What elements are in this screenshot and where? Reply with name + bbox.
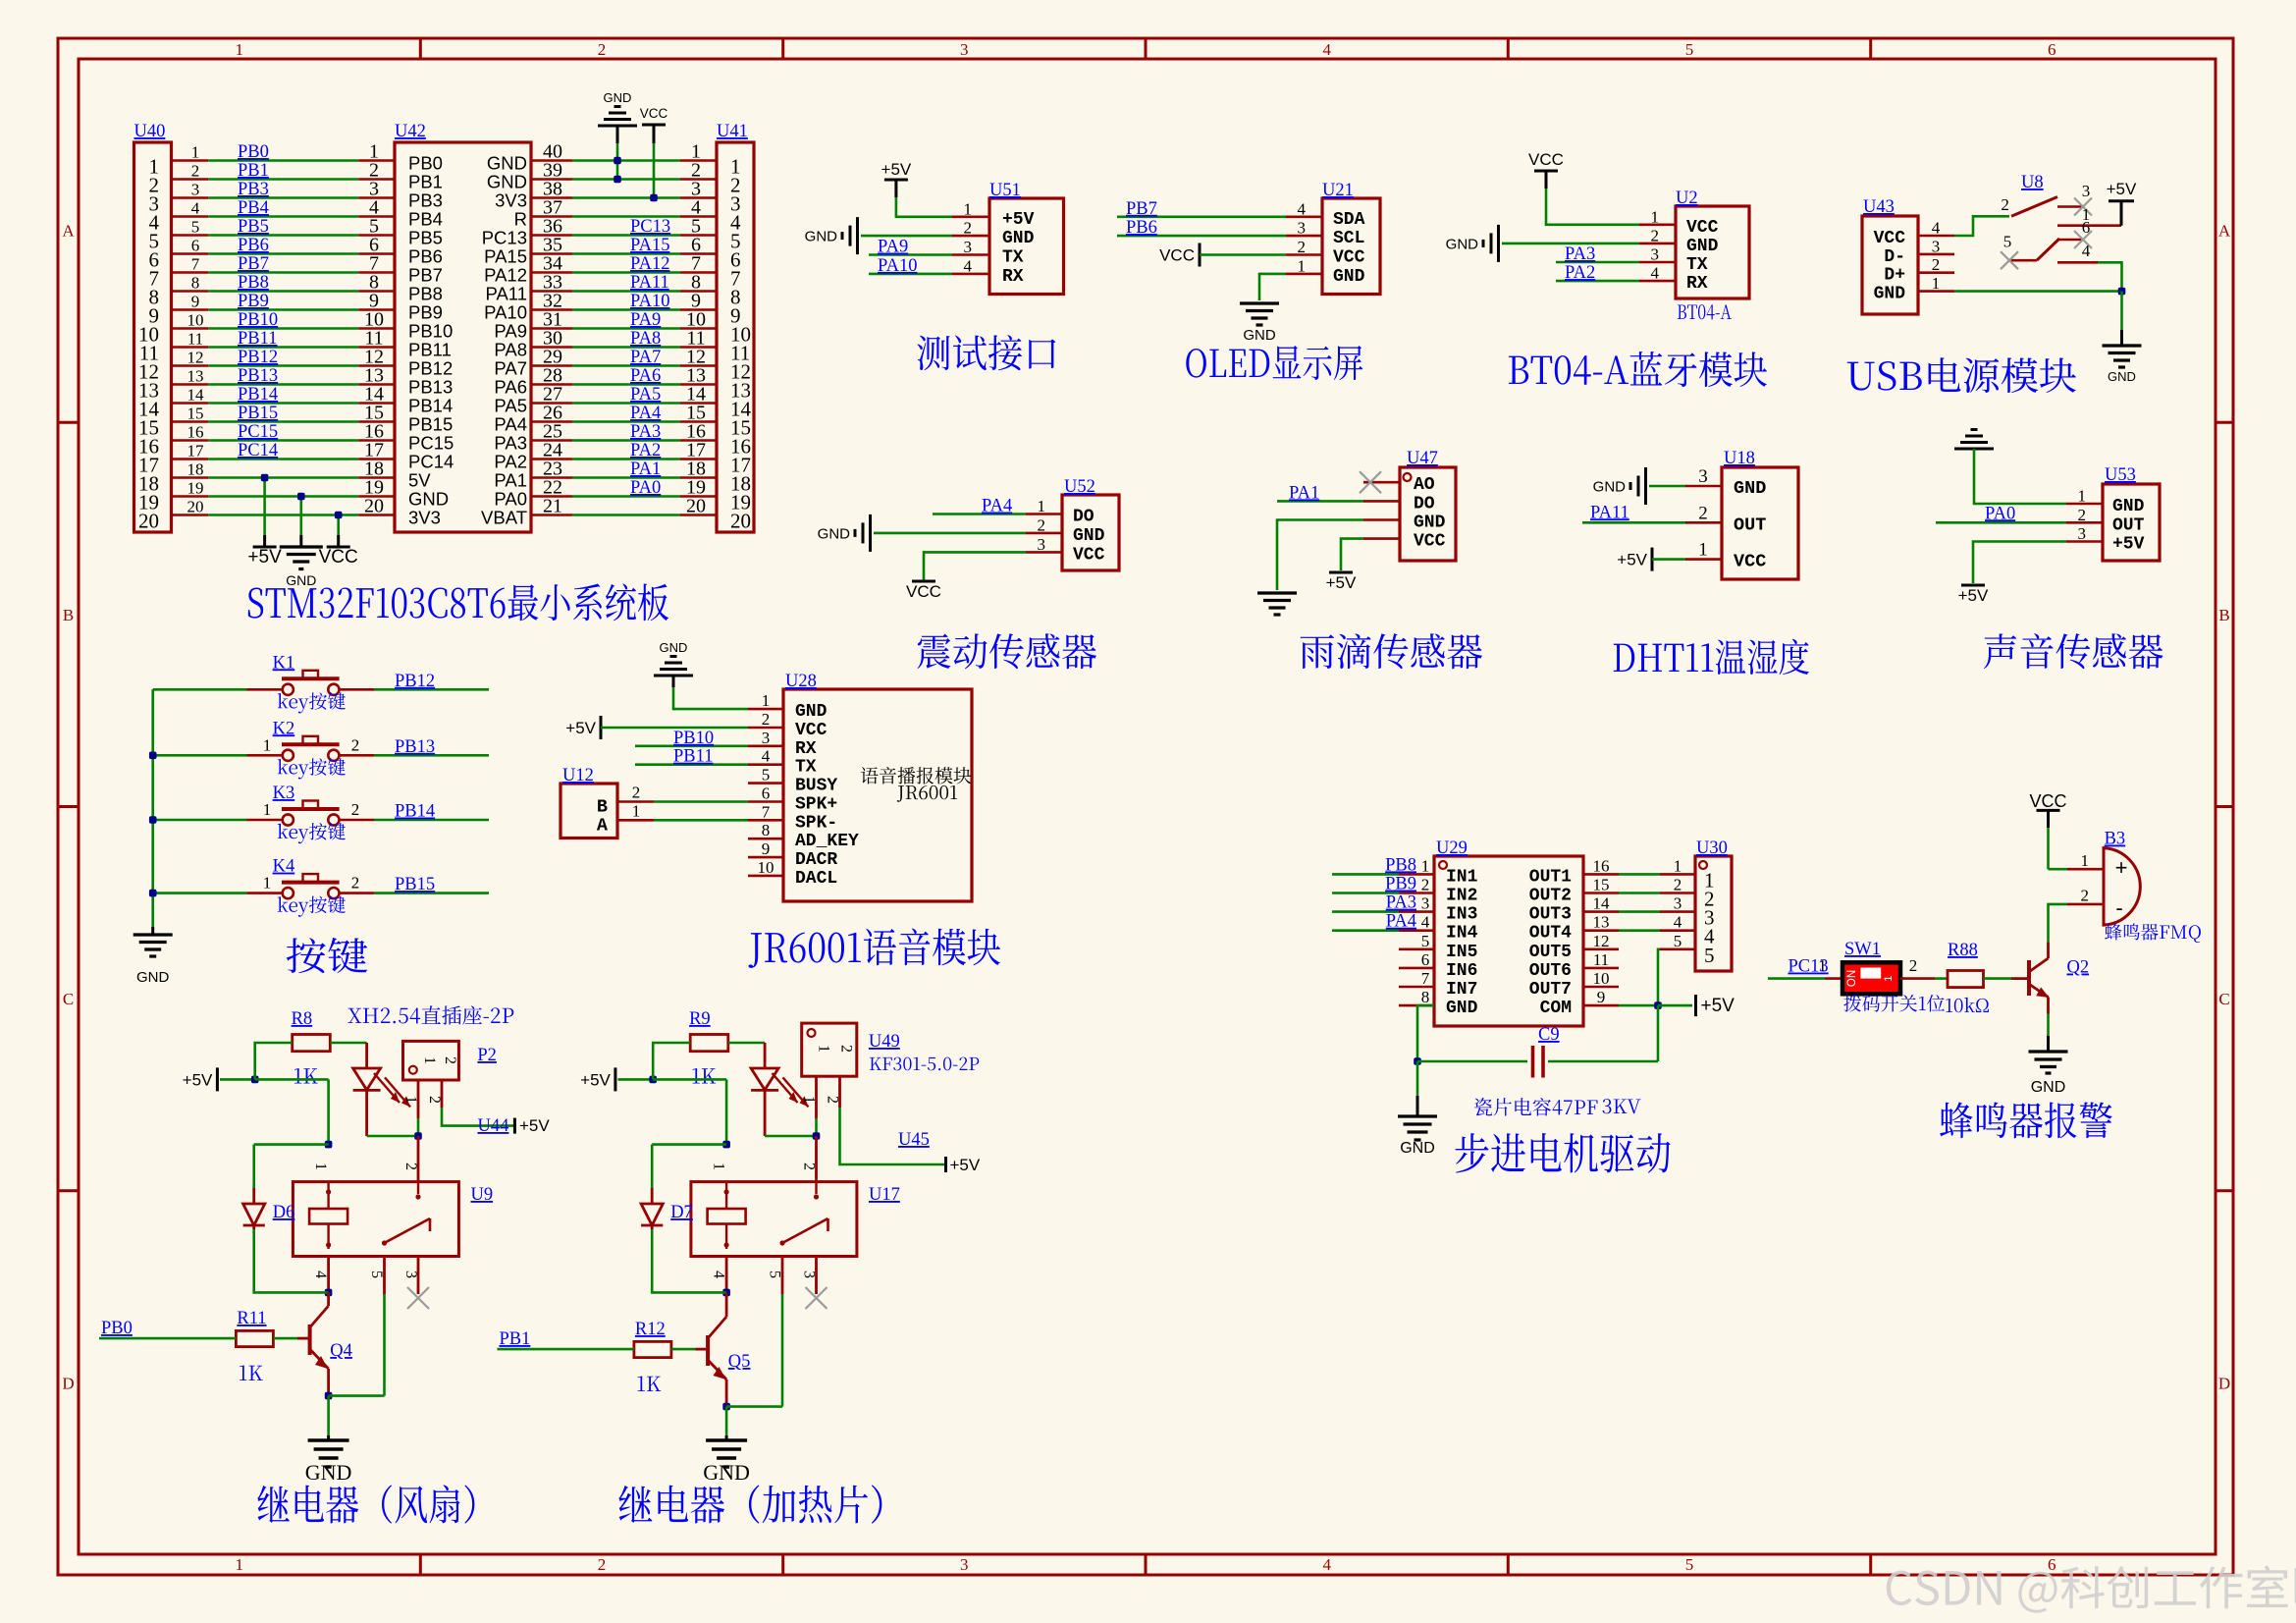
wire U40.3-U42.3 net PB3 (208, 196, 358, 199)
U29 pin 4 (IN4) (1399, 929, 1434, 932)
svg-text:U41: U41 (717, 122, 748, 141)
svg-text:OUT4: OUT4 (1529, 924, 1572, 944)
svg-text:20: 20 (187, 498, 204, 516)
svg-text:PA10: PA10 (484, 302, 527, 323)
svg-text:PB11: PB11 (673, 747, 713, 767)
wire U42.39-U41.2 (572, 178, 680, 181)
svg-text:OUT7: OUT7 (1529, 980, 1572, 1000)
wire net PB9 to U29.2 (1332, 892, 1399, 894)
svg-text:4: 4 (1932, 219, 1941, 238)
svg-text:U17: U17 (869, 1185, 900, 1205)
svg-text:U2: U2 (1676, 189, 1698, 208)
+5V power bar below U47 (1329, 571, 1353, 574)
svg-text:VCC: VCC (795, 721, 828, 740)
svg-text:5: 5 (1704, 944, 1715, 967)
svg-text:PB0: PB0 (408, 153, 443, 174)
svg-text:PA1: PA1 (494, 470, 527, 491)
no-connect X on U47.1 (1360, 471, 1381, 493)
wire U49 pin2 to +5V (U45) (840, 1108, 946, 1164)
U41 pin 11 (680, 346, 717, 349)
svg-text:6: 6 (2048, 1555, 2056, 1574)
U52 pin 3 (VCC) (1026, 551, 1062, 554)
svg-text:10: 10 (758, 858, 774, 877)
svg-text:R88: R88 (1948, 941, 1978, 960)
relay contact internals (815, 1182, 817, 1194)
U40 pin 19 (172, 495, 209, 498)
U40 pin 5 (172, 234, 209, 237)
U40 pin 14 (172, 402, 209, 405)
svg-text:PA9: PA9 (494, 321, 527, 342)
svg-text:2: 2 (191, 162, 200, 181)
relay pin 1 internal coil (327, 1182, 329, 1209)
svg-text:PC13: PC13 (482, 228, 527, 248)
svg-text:A: A (597, 815, 609, 836)
svg-text:PA12: PA12 (630, 254, 669, 274)
svg-text:20: 20 (686, 496, 706, 517)
svg-text:2: 2 (1932, 255, 1941, 274)
svg-text:U18: U18 (1724, 449, 1755, 468)
svg-text:3: 3 (1298, 219, 1307, 238)
svg-text:GND: GND (1243, 327, 1276, 344)
caption buzzer alarm (1940, 1102, 2112, 1138)
wire U42.34-U41.7 net PA12 (572, 271, 680, 274)
svg-text:+5V: +5V (881, 160, 912, 179)
svg-text:5: 5 (191, 218, 200, 237)
svg-text:D7: D7 (670, 1203, 693, 1222)
ground GND below key bus (151, 927, 154, 935)
svg-text:2: 2 (426, 1096, 443, 1104)
+5V power at U28.2 (600, 716, 603, 739)
svg-text:U8: U8 (2021, 173, 2044, 192)
wire P2 pin2 to +5V (U44) (442, 1108, 514, 1126)
U43 pin 1 (GND) (1918, 290, 1954, 293)
U41 pin 15 (680, 420, 717, 423)
svg-text:4: 4 (312, 1271, 329, 1278)
U42 pin 7 (PB7) (358, 271, 395, 274)
wire U40.15-U42.15 net PB15 (208, 420, 358, 423)
U47 pin 1 (AO) (1363, 481, 1400, 484)
wire U42.26-U41.15 net PA4 (572, 420, 680, 423)
svg-text:1: 1 (1932, 274, 1941, 293)
+5V power bar (1694, 995, 1697, 1016)
svg-text:GND: GND (136, 969, 170, 986)
wire GND to U51.2 (861, 235, 952, 238)
U41 pin 4 (680, 215, 717, 218)
svg-text:U42: U42 (395, 122, 426, 141)
U29 pin 1 (IN1) (1399, 873, 1434, 876)
svg-text:2: 2 (632, 784, 641, 802)
text voice broadcast module JR6001 (861, 767, 972, 784)
U40 pin 10 (172, 327, 209, 330)
svg-text:GND: GND (305, 1460, 352, 1485)
switch K2 (153, 754, 247, 757)
U47 pin 3 (GND) (1363, 518, 1400, 521)
wire net PB10 to U28.3 (635, 744, 748, 747)
wire B3.2 to Q2 collector (2049, 904, 2068, 943)
svg-text:4: 4 (964, 256, 973, 275)
svg-text:13: 13 (187, 367, 204, 386)
wire U42.32-U41.9 net PA10 (572, 308, 680, 311)
svg-text:2: 2 (1651, 226, 1660, 244)
svg-text:PA11: PA11 (630, 273, 669, 293)
U49 pin 1 (815, 1076, 818, 1118)
svg-text:VCC: VCC (319, 547, 358, 568)
U12 pin 2 (617, 800, 654, 803)
svg-text:6: 6 (2048, 40, 2056, 59)
wire VCC to U2.1 (1546, 189, 1639, 225)
wire SW1 to R88 (1935, 977, 1948, 980)
svg-text:OUT: OUT (1734, 514, 1766, 535)
svg-text:PB13: PB13 (408, 377, 453, 398)
U51 pin 2 (GND) (952, 235, 989, 238)
caption stepper motor driver (1456, 1133, 1671, 1173)
capacitor C9 (1417, 1060, 1527, 1063)
connector U12 speaker (561, 784, 617, 839)
wire U43.1 GND (1954, 290, 2122, 293)
svg-text:RX: RX (795, 739, 817, 759)
svg-text:1: 1 (1038, 497, 1046, 515)
svg-text:AO: AO (1414, 475, 1435, 495)
U30 pin 2 (1660, 892, 1695, 894)
svg-text:1: 1 (1298, 256, 1307, 275)
svg-text:2: 2 (598, 1555, 607, 1574)
svg-text:DO: DO (1414, 494, 1435, 514)
svg-text:PC14: PC14 (238, 441, 278, 460)
svg-text:PA15: PA15 (484, 246, 527, 267)
wire U29.COM to +5V (1619, 1004, 1658, 1007)
IC U42 STM32F103C8T6 (395, 142, 531, 532)
svg-text:PA10: PA10 (630, 292, 669, 311)
svg-text:2: 2 (801, 1163, 818, 1170)
U30 pin 1 (1660, 873, 1695, 876)
wire net PA3 to U2.3 (1556, 261, 1639, 264)
svg-text:PA9: PA9 (878, 238, 908, 257)
svg-text:B3: B3 (2105, 830, 2126, 849)
svg-text:2: 2 (402, 1163, 419, 1170)
caption STM32F103C8T6 minimal system board (248, 583, 668, 621)
U41 pin 14 (680, 402, 717, 405)
svg-text:A: A (2218, 222, 2231, 241)
U42 pin 36 (PC13) (531, 234, 572, 237)
wire net PB0 to R11 (99, 1337, 236, 1340)
key bus wire (151, 689, 154, 927)
svg-text:U9: U9 (471, 1185, 494, 1205)
svg-text:9: 9 (762, 839, 771, 858)
wire D6 top (254, 1143, 329, 1146)
+5V power bar (253, 546, 277, 549)
svg-text:IN3: IN3 (1446, 905, 1477, 925)
svg-text:1: 1 (816, 1045, 832, 1053)
U29 pin 3 (IN3) (1399, 910, 1434, 913)
switch K3 (153, 819, 247, 822)
wire net PA9 to U51.3 (869, 253, 952, 256)
U40 pin 17 (172, 458, 209, 460)
svg-text:3: 3 (1674, 894, 1682, 913)
svg-text:PB1: PB1 (238, 161, 269, 181)
wire GND to U18.3 (1649, 485, 1685, 488)
svg-text:U21: U21 (1322, 181, 1354, 200)
wire net PA1 to U47.2 (1277, 500, 1363, 503)
caption raindrop sensor (1301, 633, 1482, 669)
svg-text:K4: K4 (273, 857, 295, 877)
U41 pin 17 (680, 458, 717, 460)
connector U30 (1695, 856, 1732, 971)
relay pin 3 no-connect (815, 1257, 818, 1295)
text DIP switch 1bit (1843, 995, 1945, 1012)
wire D6 bottom to relay pin4 (254, 1229, 329, 1292)
relay pin 3 no-connect (417, 1257, 420, 1295)
wire D7 top (652, 1143, 726, 1146)
U41 pin 7 (680, 271, 717, 274)
U51 pin 4 (RX) (952, 273, 989, 276)
svg-text:14: 14 (1593, 894, 1611, 913)
svg-text:TX: TX (795, 758, 817, 778)
svg-text:PA0: PA0 (630, 478, 661, 498)
U29 pin 13 (OUT4) (1583, 929, 1619, 932)
U42 pin 30 (PA8) (531, 346, 572, 349)
U21 pin 2 (VCC) (1286, 253, 1322, 256)
wire Q4 emitter to relay pin5 (329, 1394, 385, 1397)
LED opto fan (365, 1043, 368, 1068)
wire U42.24-U41.17 net PA2 (572, 458, 680, 460)
U49 pin 2 (838, 1076, 841, 1108)
svg-text:R9: R9 (689, 1009, 711, 1029)
U42 pin 19 (GND) (358, 495, 395, 498)
U42 pin 6 (PB6) (358, 252, 395, 255)
svg-text:2: 2 (2081, 887, 2090, 905)
wire R11 to Q4 base (273, 1337, 297, 1340)
svg-text:4: 4 (1674, 913, 1682, 932)
U29 pin 12 (OUT5) (1583, 947, 1619, 950)
svg-text:2: 2 (964, 219, 973, 238)
svg-text:1: 1 (263, 735, 272, 754)
U42 pin 31 (PA9) (531, 327, 572, 330)
svg-text:1: 1 (191, 143, 200, 162)
wire U47.4 to +5V (1341, 539, 1363, 570)
svg-text:4: 4 (1298, 199, 1307, 218)
VCC power bar (327, 546, 350, 549)
wire U40.10-U42.10 net PB10 (208, 327, 358, 330)
wire U40.14-U42.14 net PB14 (208, 402, 358, 405)
svg-text:GND: GND (1002, 229, 1035, 248)
wire VCC to U21.2 (1200, 253, 1286, 256)
svg-text:4: 4 (2082, 242, 2091, 260)
svg-text:D: D (2218, 1374, 2230, 1392)
svg-text:PB4: PB4 (408, 209, 443, 230)
svg-text:DACR: DACR (795, 850, 837, 870)
svg-text:PB14: PB14 (408, 396, 453, 416)
U30 pin 5 (1660, 947, 1695, 950)
U52 pin 2 (GND) (1026, 532, 1062, 535)
wire R8 to LED and relay pin1 (330, 1042, 366, 1045)
wire U42.33-U41.8 net PA11 (572, 290, 680, 293)
connector U41 (717, 142, 754, 532)
svg-text:5: 5 (1674, 932, 1682, 950)
wire net PB11 to U28.4 (635, 763, 748, 766)
U42 pin 21 (VBAT) (531, 514, 572, 516)
wire net PA3 to U29.3 (1332, 910, 1399, 913)
svg-text:U30: U30 (1696, 839, 1728, 858)
svg-text:VCC: VCC (1686, 218, 1719, 238)
svg-text:-: - (2115, 895, 2122, 920)
svg-text:VCC: VCC (1528, 150, 1564, 169)
svg-text:IN4: IN4 (1446, 924, 1478, 944)
U42 pin 34 (PA12) (531, 271, 572, 274)
wire U42.23-U41.18 net PA1 (572, 476, 680, 479)
U29 pin 11 (OUT6) (1583, 967, 1619, 970)
svg-text:Q4: Q4 (330, 1341, 352, 1361)
svg-text:GND: GND (1446, 236, 1479, 252)
svg-text:PA4: PA4 (494, 414, 527, 435)
U40 pin 20 (172, 514, 209, 516)
svg-text:U12: U12 (562, 766, 594, 785)
wire GND to U2.2 (1502, 243, 1639, 245)
svg-text:PB4: PB4 (238, 198, 269, 218)
svg-text:7: 7 (762, 802, 771, 821)
ground GND below U21 (1240, 301, 1279, 304)
connector U40 (134, 142, 172, 532)
wire U29.OUT3 to U30.3 (1619, 910, 1660, 913)
+5V power bar below U53 (1961, 584, 1985, 587)
svg-text:17: 17 (187, 442, 205, 460)
svg-text:R11: R11 (237, 1309, 266, 1328)
svg-text:3: 3 (402, 1271, 419, 1278)
ground GND below U29 (1416, 1096, 1419, 1116)
wire U42.36-U41.5 net PC13 (572, 234, 680, 237)
U43 pin 4 (VCC) (1918, 235, 1954, 238)
U47 pin 4 (VCC) (1363, 537, 1400, 540)
svg-text:PA0: PA0 (1985, 504, 2015, 523)
wire LED to relay pin2 junction (367, 1135, 418, 1138)
wire net PB1 to R12 (498, 1348, 634, 1351)
wire +5V to U18.1 (1652, 558, 1685, 561)
svg-text:A: A (62, 222, 75, 241)
svg-text:3: 3 (1932, 237, 1941, 255)
U41 pin 19 (680, 495, 717, 498)
U28 pin 6 (SPK+) (748, 800, 783, 803)
svg-text:PB6: PB6 (1126, 218, 1157, 238)
svg-text:1: 1 (2081, 851, 2090, 870)
svg-text:PB15: PB15 (395, 875, 435, 894)
U42 pin 14 (PB14) (358, 402, 395, 405)
svg-text:PA5: PA5 (494, 396, 527, 416)
svg-text:K1: K1 (273, 653, 295, 673)
U42 pin 3 (PB3) (358, 196, 395, 199)
svg-text:PC15: PC15 (408, 433, 454, 454)
svg-text:GND: GND (487, 172, 527, 192)
svg-text:5: 5 (762, 766, 771, 784)
U42 pin 37 (R) (531, 215, 572, 218)
svg-text:4: 4 (762, 747, 771, 766)
svg-text:VBAT: VBAT (481, 508, 527, 528)
svg-text:PB9: PB9 (238, 292, 269, 311)
relay pin 4 (327, 1257, 330, 1293)
svg-text:PB14: PB14 (395, 802, 435, 822)
U42 pin 2 (PB1) (358, 178, 395, 181)
svg-text:PB1: PB1 (408, 172, 443, 192)
svg-text:2: 2 (838, 1045, 855, 1053)
+5V power bar (216, 1067, 219, 1091)
svg-text:PA4: PA4 (630, 404, 661, 423)
svg-text:VCC: VCC (1333, 248, 1365, 268)
svg-text:AD_KEY: AD_KEY (795, 832, 859, 851)
U53 pin 2 (OUT) (2066, 521, 2103, 524)
svg-text:SPK-: SPK- (795, 813, 837, 833)
U12 pin 1 (617, 819, 654, 822)
svg-text:PA6: PA6 (630, 366, 661, 386)
svg-text:PA1: PA1 (630, 460, 661, 479)
caption JR6001 voice module (748, 928, 1000, 967)
wire U40.2-U42.2 net PB1 (208, 178, 358, 181)
U40 pin 13 (172, 383, 209, 386)
svg-text:18: 18 (187, 460, 204, 479)
wire K1 to net PB12 (374, 688, 489, 691)
svg-text:GND: GND (1686, 237, 1719, 256)
svg-text:4: 4 (1322, 1555, 1331, 1574)
U42 pin 8 (PB8) (358, 290, 395, 293)
svg-text:2: 2 (351, 735, 360, 754)
U41 pin 12 (680, 364, 717, 367)
U28 pin 3 (RX) (748, 744, 783, 747)
caption test interface (917, 335, 1055, 370)
svg-text:PB5: PB5 (238, 217, 269, 237)
U51 pin 1 (+5V) (952, 216, 989, 219)
U42 pin 12 (PB12) (358, 364, 395, 367)
U42 pin 15 (PB15) (358, 420, 395, 423)
svg-text:20: 20 (730, 510, 751, 533)
svg-text:OUT3: OUT3 (1529, 905, 1572, 925)
ground above U53 (1954, 448, 1994, 451)
svg-text:5: 5 (368, 1271, 385, 1278)
svg-text:PA2: PA2 (494, 452, 527, 472)
svg-text:U51: U51 (989, 181, 1021, 200)
svg-text:U52: U52 (1064, 477, 1095, 497)
svg-text:PA4: PA4 (982, 497, 1012, 516)
svg-text:1: 1 (711, 1163, 727, 1170)
U2 pin 2 (GND) (1639, 243, 1676, 245)
svg-text:PB7: PB7 (408, 265, 443, 286)
svg-text:COM: COM (1540, 999, 1572, 1018)
svg-text:U47: U47 (1407, 449, 1438, 468)
IC U29 ULN2003 (1434, 856, 1583, 1026)
wire U40.11-U42.11 net PB11 (208, 346, 358, 349)
U41 pin 5 (680, 234, 717, 237)
ground GND below Q4 (327, 1435, 330, 1440)
wire U42.40-U41.1 (572, 159, 680, 162)
svg-text:+5V: +5V (1002, 210, 1035, 230)
U29 pin 6 (IN6) (1399, 967, 1434, 970)
svg-text:GND: GND (487, 153, 527, 174)
wire GND rail to pins 40,39 (616, 143, 619, 180)
U40 pin 6 (172, 252, 209, 255)
svg-text:PA2: PA2 (630, 441, 661, 460)
svg-text:SW1: SW1 (1844, 940, 1881, 959)
U40 pin 18 (172, 476, 209, 479)
wire +5V to R8 (220, 1078, 255, 1081)
svg-text:+5V: +5V (1958, 586, 1989, 605)
wire +5V to U51.1 (896, 197, 952, 217)
svg-text:DO: DO (1073, 508, 1095, 527)
U28 pin 8 (AD_KEY) (748, 838, 783, 840)
wire GND to U52.2 (874, 532, 1026, 535)
svg-text:PB13: PB13 (395, 737, 435, 757)
svg-text:5: 5 (1685, 40, 1694, 59)
U29 pin 9 (COM) (1583, 1004, 1619, 1007)
U40 pin 12 (172, 364, 209, 367)
wire U40.4-U42.4 net PB4 (208, 215, 358, 218)
svg-text:GND: GND (703, 1460, 750, 1485)
svg-text:ON: ON (1846, 970, 1858, 987)
